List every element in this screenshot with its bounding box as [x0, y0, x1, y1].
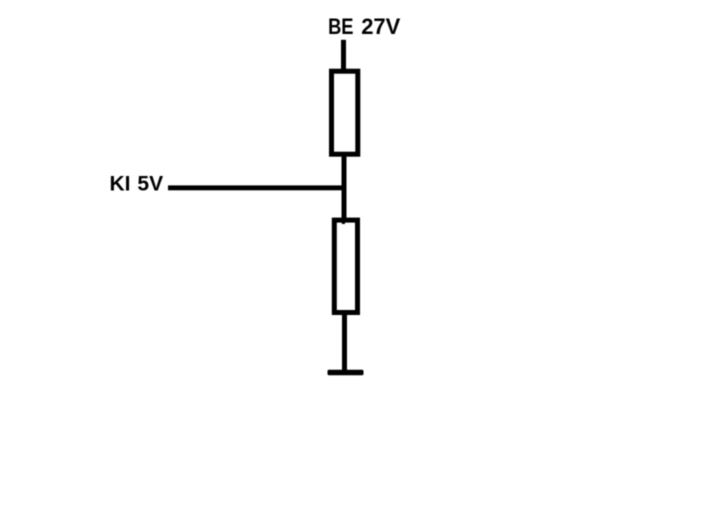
- wire from BE node to resistor R1 top: [341, 40, 346, 70]
- ground: [328, 370, 364, 376]
- svg-text:KI: KI: [110, 172, 131, 195]
- svg-text:5V: 5V: [137, 172, 163, 195]
- resistor R1: [332, 71, 358, 154]
- wire horizontal from KI node to junction: [168, 185, 346, 190]
- wire stub poking through R2 top border: [342, 218, 345, 224]
- wire from R2 bottom to ground: [342, 313, 347, 371]
- resistor R2: [334, 220, 357, 312]
- wire from R1 bottom through junction to R2 top: [342, 155, 347, 219]
- svg-text:BE: BE: [328, 14, 353, 39]
- svg-text:27V: 27V: [361, 14, 400, 39]
